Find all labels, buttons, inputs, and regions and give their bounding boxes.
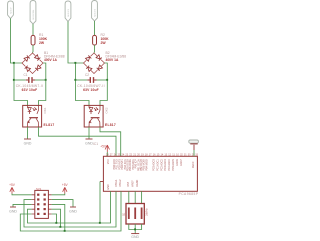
junction dot — [74, 62, 76, 64]
wire IC left pin down to net 1 — [99, 182, 101, 224]
svg-text:AGND: AGND — [136, 180, 139, 187]
svg-text:RST: RST — [127, 181, 130, 186]
svg-text:PC4 ADC4: PC4 ADC4 — [168, 159, 171, 171]
junction dot — [13, 62, 15, 64]
wire conn X2 to R1 — [32, 24, 34, 35]
junction dot — [64, 230, 66, 232]
wire cap line left — [14, 79, 26, 81]
wire R2 to bridge2 top — [93, 45, 96, 53]
connector X4 — [92, 1, 98, 22]
wire loop row2-left to IC (net 2) — [24, 191, 116, 227]
wire bridge right rail — [39, 63, 46, 105]
ground GND (header left) — [9, 207, 17, 213]
svg-text:+5V: +5V — [9, 183, 16, 187]
svg-text:ADC7: ADC7 — [180, 159, 183, 166]
svg-text:PB4 MISO: PB4 MISO — [145, 159, 148, 170]
svg-text:GND: GND — [9, 209, 17, 213]
+5V supply (header left) — [9, 183, 31, 195]
optocoupler OK2 — [84, 105, 116, 127]
junction dot — [59, 226, 61, 228]
bridge rectifier B1 — [22, 51, 65, 74]
ground GND (header right) — [69, 207, 77, 213]
IC1 bottom pin names — [107, 179, 139, 190]
wire conn X3 to bridge2 left — [68, 22, 84, 64]
IC1 left pin stub — [100, 181, 103, 183]
wires IC to resonator — [129, 191, 142, 203]
svg-text:PC1 ADC1: PC1 ADC1 — [156, 159, 159, 171]
wire cap2 line left — [76, 79, 88, 81]
svg-text:OK2: OK2 — [105, 107, 109, 113]
junction dot — [99, 222, 101, 224]
wire loop right riser to row5 — [52, 214, 57, 223]
svg-text:AREF: AREF — [131, 180, 134, 187]
wire opto2 to gnd — [88, 127, 90, 139]
svg-text:62-1371: 62-1371 — [94, 8, 96, 16]
junction dot — [13, 79, 15, 81]
svg-text:PCA9685P: PCA9685P — [179, 192, 199, 196]
capacitor C1 — [16, 73, 44, 92]
resonator Q1 — [123, 204, 149, 225]
svg-text:GND: GND — [69, 209, 77, 213]
svg-text:XTAL1: XTAL1 — [115, 179, 118, 187]
svg-text:63V 10uF: 63V 10uF — [83, 88, 99, 92]
resistor R2 — [93, 33, 110, 45]
wire cap2 line right — [97, 79, 108, 81]
svg-text:GND: GND — [24, 142, 32, 146]
svg-text:ADC6: ADC6 — [176, 159, 179, 166]
bridge rectifier B2 — [84, 51, 127, 74]
svg-text:AVCC: AVCC — [192, 161, 195, 168]
svg-text:EL817: EL817 — [105, 123, 116, 127]
wire opto2 output to IC — [100, 127, 121, 156]
IC1 top pin names — [113, 159, 195, 171]
wire opto1 to gnd — [27, 127, 29, 139]
svg-text:GND: GND — [107, 184, 110, 190]
op IC1 box — [103, 156, 197, 191]
svg-text:63V 10uF: 63V 10uF — [22, 88, 38, 92]
wire loop right riser to row3 — [52, 204, 65, 231]
optocoupler OK1 — [23, 105, 55, 127]
ground GND (opto1) — [24, 139, 32, 146]
wire loop row4-left to IC (net 1) — [28, 191, 111, 223]
svg-text:16MHz: 16MHz — [146, 208, 149, 216]
wire opto1 output to IC — [39, 127, 117, 156]
wire loop row5-left to IC (net 3) — [20, 191, 121, 231]
junction dot — [45, 79, 47, 81]
ground GND (resonator) — [131, 234, 139, 239]
svg-text:PC3 ADC3: PC3 ADC3 — [164, 159, 167, 171]
capacitor C2 — [77, 73, 105, 92]
svg-text:400V 1A: 400V 1A — [106, 58, 119, 62]
wire cap line right — [35, 79, 46, 81]
connector X1 — [8, 1, 14, 19]
junction dot — [106, 79, 108, 81]
svg-text:2W: 2W — [39, 41, 45, 45]
wire loop right riser to row4 — [52, 209, 61, 227]
header SV1 — [32, 187, 52, 219]
svg-text:C1: C1 — [24, 73, 28, 77]
wire header row3 to gnd left — [13, 204, 32, 206]
wires resonator to gnd — [129, 224, 142, 233]
connector X2 — [30, 1, 36, 25]
connector JP1 (top right) — [189, 140, 199, 156]
junction dot — [74, 79, 76, 81]
svg-text:EL817: EL817 — [44, 123, 55, 127]
wire conn X1 to bridge left — [11, 19, 23, 64]
connector X3 — [65, 1, 71, 22]
svg-text:GND: GND — [131, 235, 139, 239]
svg-text:OK1: OK1 — [43, 107, 47, 113]
wire header row2 to gnd right — [52, 200, 73, 207]
svg-text:VCC: VCC — [107, 159, 110, 164]
wire bridge2 right rail — [100, 63, 107, 105]
svg-text:62-1371: 62-1371 — [68, 8, 70, 16]
svg-text:PC0 ADC0: PC0 ADC0 — [153, 159, 156, 171]
wire R1 to bridge top — [32, 45, 35, 53]
svg-text:PC2 ADC2: PC2 ADC2 — [160, 159, 163, 171]
ground GND (opto2) — [85, 139, 93, 146]
wire bridge2 left rail — [76, 63, 90, 105]
junction dot — [55, 222, 57, 224]
junction dot — [134, 228, 136, 230]
svg-text:PC5 ADC5: PC5 ADC5 — [172, 159, 175, 171]
wire bridge left rail — [14, 63, 28, 105]
svg-text:+5V: +5V — [62, 183, 69, 187]
resistor R1 — [31, 33, 48, 45]
svg-text:62-137: 62-137 — [10, 6, 12, 13]
+5V supply (IC) — [100, 145, 109, 157]
svg-text:62-137134: 62-137134 — [33, 9, 35, 20]
IC1 pin numbers (top) — [106, 153, 199, 156]
svg-text:C2: C2 — [85, 73, 89, 77]
+5V supply (header right) — [52, 183, 69, 195]
svg-text:IC1: IC1 — [93, 142, 98, 146]
wire conn X4 to R2 — [94, 21, 96, 35]
svg-text:2W: 2W — [101, 41, 107, 45]
svg-text:XTAL2: XTAL2 — [119, 179, 122, 187]
svg-text:400V 1A: 400V 1A — [44, 58, 57, 62]
